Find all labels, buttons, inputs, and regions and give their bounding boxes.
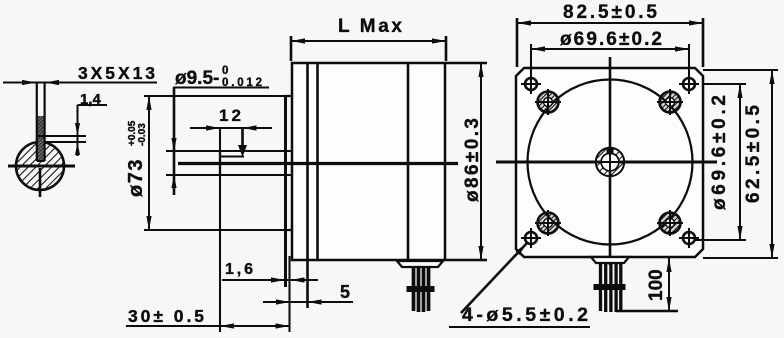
- keyway slot walls: [37, 83, 45, 162]
- square flange outline (chamfered corners): [516, 68, 703, 257]
- dimension phi 73 +0.05 -0.03 (pilot): [125, 96, 285, 230]
- assembly screw bottom-left (hatched): [535, 210, 561, 236]
- dimension 3X5X13 (key size): [3, 63, 157, 85]
- dimension 1,6 (boss height): [222, 261, 318, 283]
- corner mounting hole top-right: [679, 78, 699, 90]
- dimension 12 (key length): [190, 106, 272, 157]
- dimension phi 69.6 +-0.2 vertical: [695, 84, 746, 240]
- svg-text:ø69.6±0.2: ø69.6±0.2: [560, 29, 662, 50]
- motor body rectangle: [292, 63, 445, 260]
- svg-text:ø69.6±0.2: ø69.6±0.2: [709, 95, 730, 210]
- horizontal centerline: [496, 160, 717, 163]
- svg-text:4-ø5.5±0.2: 4-ø5.5±0.2: [462, 304, 588, 326]
- corner mounting hole bottom-right: [679, 228, 699, 248]
- svg-text:5: 5: [340, 282, 350, 302]
- rear cap line: [407, 63, 410, 260]
- svg-text:ø9.5-: ø9.5-: [175, 68, 219, 89]
- lead wires (front view): [594, 262, 626, 312]
- svg-text:L Max: L Max: [338, 16, 402, 37]
- pilot circle phi 69.6 body circle: [528, 80, 693, 245]
- svg-text:100: 100: [646, 269, 667, 301]
- corner mounting hole bottom-left: [521, 228, 541, 248]
- dimension phi 9.5 -0.012 label: [171, 65, 269, 195]
- center axis line (thick): [178, 162, 458, 165]
- connector foot (front view): [591, 257, 629, 263]
- svg-text:0: 0: [222, 65, 228, 77]
- vertical centerline of shaft section: [39, 168, 42, 197]
- dimension L Max: [291, 16, 446, 61]
- shaft side view: [166, 151, 292, 175]
- dimension 1,4 (key protrusion): [37, 91, 107, 156]
- shaft section circle (hatched): [16, 139, 64, 190]
- svg-text:-0.03: -0.03: [137, 123, 148, 146]
- rear end-bell foot (side view): [397, 261, 443, 267]
- dimension phi 69.6 +-0.2 horizontal: [531, 29, 689, 94]
- dimension 62.5 +-0.5 vertical: [703, 70, 778, 258]
- key (hatched) in keyway: [36, 116, 44, 161]
- svg-text:1,6: 1,6: [225, 261, 253, 278]
- dimension 82.5 +-0.5: [517, 2, 703, 67]
- dimension phi 86 +-0.3 (body): [446, 63, 487, 260]
- lead wires (side view): [407, 266, 435, 312]
- shaft boss front (hatched ring with keyway): [592, 144, 628, 180]
- assembly screw bottom-right (hatched): [657, 210, 683, 236]
- horizontal centerline of shaft section: [8, 164, 75, 167]
- front flange line 2: [316, 63, 319, 260]
- dimension 100 (lead length): [616, 258, 678, 311]
- front flange line 1: [306, 63, 309, 260]
- assembly screw top-left (hatched): [535, 89, 561, 115]
- assembly screw top-right (hatched): [657, 89, 683, 115]
- vertical centerline: [609, 57, 612, 265]
- svg-text:ø73: ø73: [125, 158, 147, 197]
- dimension 5: [263, 260, 353, 308]
- dimension 30 +-0.5 (shaft length): [126, 128, 290, 332]
- corner mounting hole top-left: [521, 78, 541, 90]
- leader and label 4-phi5.5 +-0.2 (mounting holes): [449, 243, 590, 327]
- pilot boss front face (thick): [285, 96, 292, 287]
